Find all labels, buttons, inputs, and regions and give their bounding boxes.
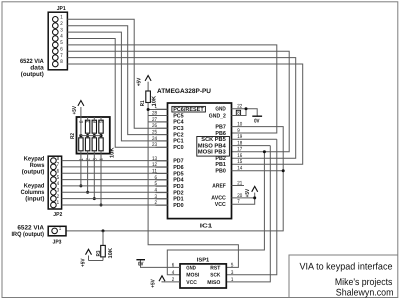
svg-text:GND: GND [186, 265, 196, 271]
wire IC PC5 stub [148, 115, 167, 117]
svg-text:5: 5 [231, 263, 234, 269]
wire JP1 pin2 to IC PC2 [67, 26, 167, 135]
svg-text:7: 7 [86, 120, 92, 123]
power +5V (R1 pull-up) [136, 76, 151, 92]
wire VCC to +5V [232, 198, 255, 204]
svg-text:PB0: PB0 [215, 168, 225, 175]
title text: Mike&apos;s projects [335, 277, 393, 288]
connector JP1 (6522 VIA data) [48, 12, 67, 70]
svg-text:PC0: PC0 [173, 144, 183, 151]
svg-text:+5V: +5V [72, 106, 78, 115]
ground 0V symbol [252, 116, 262, 124]
power +5V (R2 common) [72, 101, 84, 115]
svg-text:5: 5 [57, 175, 60, 181]
connector JP2 (keypad) [48, 156, 61, 209]
svg-text:5: 5 [60, 40, 63, 46]
svg-text:ISP1: ISP1 [197, 258, 210, 264]
svg-text:9: 9 [237, 128, 240, 134]
svg-text:PD3: PD3 [173, 183, 184, 190]
wire JP2 pin8 to IC PD7 [62, 160, 168, 162]
svg-text:0V: 0V [138, 262, 144, 268]
svg-text:PD7: PD7 [173, 159, 183, 165]
svg-text:GND_2: GND_2 [209, 112, 226, 119]
svg-text:MOSI PB3: MOSI PB3 [198, 149, 227, 156]
svg-text:17: 17 [237, 147, 242, 153]
svg-text:MISO PB4: MISO PB4 [198, 142, 227, 149]
svg-text:6: 6 [92, 120, 98, 123]
svg-text:PD6: PD6 [173, 164, 184, 171]
svg-text:28: 28 [152, 110, 157, 116]
wire MISO net (IC PB4 to ISP MISO) [226, 146, 270, 282]
svg-text:GND: GND [215, 106, 225, 113]
wire R2 pin4 to keypad column 4 [100, 154, 103, 207]
wire JP2 pin1 to IC PD0 [62, 204, 168, 206]
wire AREF stub [232, 185, 245, 187]
wire GND pins 22/8 to 0V [232, 109, 258, 116]
svg-text:24: 24 [152, 136, 157, 142]
svg-text:1: 1 [155, 104, 158, 110]
svg-text:R2: R2 [70, 133, 76, 139]
svg-text:PD5: PD5 [173, 171, 184, 177]
svg-text:VIA to keypad interface: VIA to keypad interface [300, 262, 393, 273]
svg-text:2: 2 [60, 21, 63, 27]
svg-text:7: 7 [60, 53, 63, 59]
wire R2 pin2 to keypad column 2 [86, 154, 89, 194]
svg-text:R3: R3 [96, 251, 102, 257]
wire JP2 pin3 to IC PD2 [62, 191, 168, 193]
svg-text:JP2: JP2 [53, 212, 62, 218]
svg-text:3: 3 [60, 27, 63, 33]
svg-text:PD2: PD2 [173, 189, 183, 196]
svg-text:3: 3 [231, 270, 234, 276]
svg-text:+5V: +5V [136, 77, 142, 86]
svg-text:1: 1 [59, 226, 62, 232]
power +5V (AVCC/VCC) [245, 186, 258, 198]
svg-text:6: 6 [60, 46, 63, 52]
svg-text:1: 1 [57, 200, 60, 206]
wire JP2 pin2 to IC PD1 [62, 198, 168, 200]
wire JP1 pin5 to IC PB6 [67, 45, 276, 133]
label ISP1 [197, 258, 210, 264]
svg-text:0V: 0V [254, 118, 260, 124]
connector ISP1 [172, 263, 234, 289]
power +5V (R3 pull-up) [81, 249, 104, 267]
svg-text:(output): (output) [22, 169, 45, 176]
svg-text:25: 25 [152, 130, 157, 136]
label IC1 [200, 222, 214, 229]
IC U1 ATMEGA328P-PU [152, 103, 242, 219]
wire MOSI net tap to ISP MOSI [167, 152, 264, 275]
resistor R3 10K [96, 231, 114, 261]
svg-text:4: 4 [57, 181, 60, 187]
label JP3 [53, 240, 62, 246]
wire JP2 pin5 to IC PD4 [62, 179, 168, 181]
svg-text:SCK PB5: SCK PB5 [201, 136, 226, 143]
svg-text:27: 27 [152, 117, 157, 123]
resistor network R2 10K [77, 107, 110, 161]
junction IRQ node at JP3/R3 [102, 229, 105, 232]
svg-text:PB7: PB7 [215, 124, 225, 130]
svg-text:+5V: +5V [81, 258, 87, 267]
svg-text:10K: 10K [108, 248, 114, 259]
label 6522 VIA IRQ (output) [12, 225, 45, 239]
junction PB0/IRQ node [282, 169, 285, 172]
wire IC PC4 stub [148, 121, 167, 123]
wire JP2 pin7 to IC PD6 [62, 166, 168, 168]
svg-text:7: 7 [57, 162, 60, 168]
svg-text:AVCC: AVCC [211, 195, 226, 202]
label JP1 [57, 6, 66, 12]
svg-text:PD1: PD1 [173, 197, 184, 203]
svg-text:4: 4 [60, 34, 63, 40]
wire R2 pin3 to keypad column 3 [93, 154, 96, 201]
label Keypad Columns (input) [21, 183, 45, 203]
svg-text:PB6: PB6 [215, 130, 226, 137]
svg-text:PC1: PC1 [173, 138, 184, 145]
connector JP3 (6522 VIA IRQ) [48, 226, 66, 236]
wire JP1 pin8 to IC PB1 [67, 64, 302, 164]
svg-text:VCC: VCC [215, 201, 227, 208]
svg-text:PC2: PC2 [173, 131, 183, 138]
wire JP1 pin1 to IC PC3 [67, 19, 167, 128]
svg-text:PC3: PC3 [173, 125, 184, 132]
svg-text:10K: 10K [110, 147, 116, 158]
svg-text:PC4: PC4 [173, 119, 184, 126]
svg-text:3: 3 [57, 188, 60, 194]
svg-text:1: 1 [60, 15, 63, 21]
label R2 value 10K [110, 147, 116, 158]
svg-text:2: 2 [57, 194, 60, 200]
wire JP2 pin4 to IC PD3 [62, 185, 168, 187]
svg-text:IC1: IC1 [200, 222, 214, 229]
highlight box SPI pins SCK/MISO/MOSI [197, 137, 230, 157]
svg-text:+5V: +5V [150, 279, 156, 288]
svg-text:(output): (output) [21, 71, 44, 78]
svg-text:MISO: MISO [207, 280, 220, 286]
svg-text:1: 1 [231, 277, 234, 283]
title text: Shalewyn.com [336, 287, 394, 298]
svg-text:6: 6 [57, 168, 60, 174]
label R2 [70, 133, 76, 139]
label ATMEGA328P-PU [157, 88, 211, 95]
label JP2 [53, 212, 62, 218]
svg-text:PC5: PC5 [173, 112, 184, 119]
svg-text:Shalewyn.com: Shalewyn.com [336, 287, 394, 298]
svg-text:4: 4 [172, 270, 175, 276]
svg-text:+5V: +5V [245, 189, 251, 198]
svg-text:JP3: JP3 [53, 240, 62, 246]
svg-text:RST: RST [210, 265, 221, 271]
wire SCK net (IC PB5 to ISP SCK) [226, 139, 276, 275]
svg-text:8: 8 [79, 120, 85, 123]
svg-text:(input): (input) [25, 196, 44, 203]
junction MOSI node [263, 150, 266, 153]
svg-text:R1: R1 [140, 100, 146, 106]
svg-text:8: 8 [60, 59, 63, 65]
svg-text:ATMEGA328P-PU: ATMEGA328P-PU [157, 88, 211, 95]
wire R2 pin1 to keypad column 1 [79, 154, 82, 188]
wire JP1 pin4 to IC PC0 [67, 38, 167, 147]
svg-text:SCK: SCK [210, 273, 220, 279]
junction AVCC node [253, 196, 256, 199]
svg-text:VCC: VCC [186, 280, 197, 286]
junction RESET node [147, 108, 150, 111]
highlight box pin 8 GND_2 [236, 110, 240, 115]
title text: VIA to keypad interface [300, 262, 393, 273]
svg-text:23: 23 [152, 142, 157, 148]
wire ISP GND to 0V [141, 260, 181, 268]
svg-text:IRQ (output): IRQ (output) [12, 231, 45, 238]
svg-text:PB1: PB1 [215, 162, 226, 168]
junction GND node [245, 107, 248, 110]
svg-text:PD0: PD0 [173, 202, 183, 209]
svg-text:16: 16 [237, 153, 242, 159]
power +5V (ISP VCC) [150, 276, 180, 288]
highlight box PC6/RESET [172, 106, 206, 112]
label Keypad Rows (output) [22, 156, 45, 176]
wire IC PB0 to IRQ net [232, 170, 284, 172]
wire JP1 pin6 to IC PB3/MOSI [67, 51, 289, 151]
svg-text:MOSI: MOSI [186, 273, 199, 279]
wire AVCC to +5V [232, 197, 255, 199]
wire RESET net (R1/IC pin1 to ISP RST) [148, 110, 238, 268]
ground 0V symbol (ISP) [136, 260, 145, 268]
title block box [289, 255, 398, 298]
wire JP1 pin7 to IC PB2 [67, 58, 295, 159]
resistor R1 10K [140, 91, 158, 110]
svg-text:AREF: AREF [212, 183, 226, 189]
svg-text:PD4: PD4 [173, 178, 184, 184]
wire JP2 pin6 to IC PD5 [62, 172, 168, 174]
svg-text:JP1: JP1 [57, 6, 66, 12]
label 6522 VIA data (output) [20, 58, 44, 78]
svg-text:5: 5 [99, 120, 105, 123]
wire JP1 pin3 to IC PC1 [67, 32, 167, 141]
svg-text:26: 26 [152, 123, 157, 129]
svg-text:8: 8 [57, 156, 60, 162]
svg-text:15: 15 [237, 159, 242, 165]
wire IRQ net (JP3 to IC PB7) [66, 127, 283, 231]
